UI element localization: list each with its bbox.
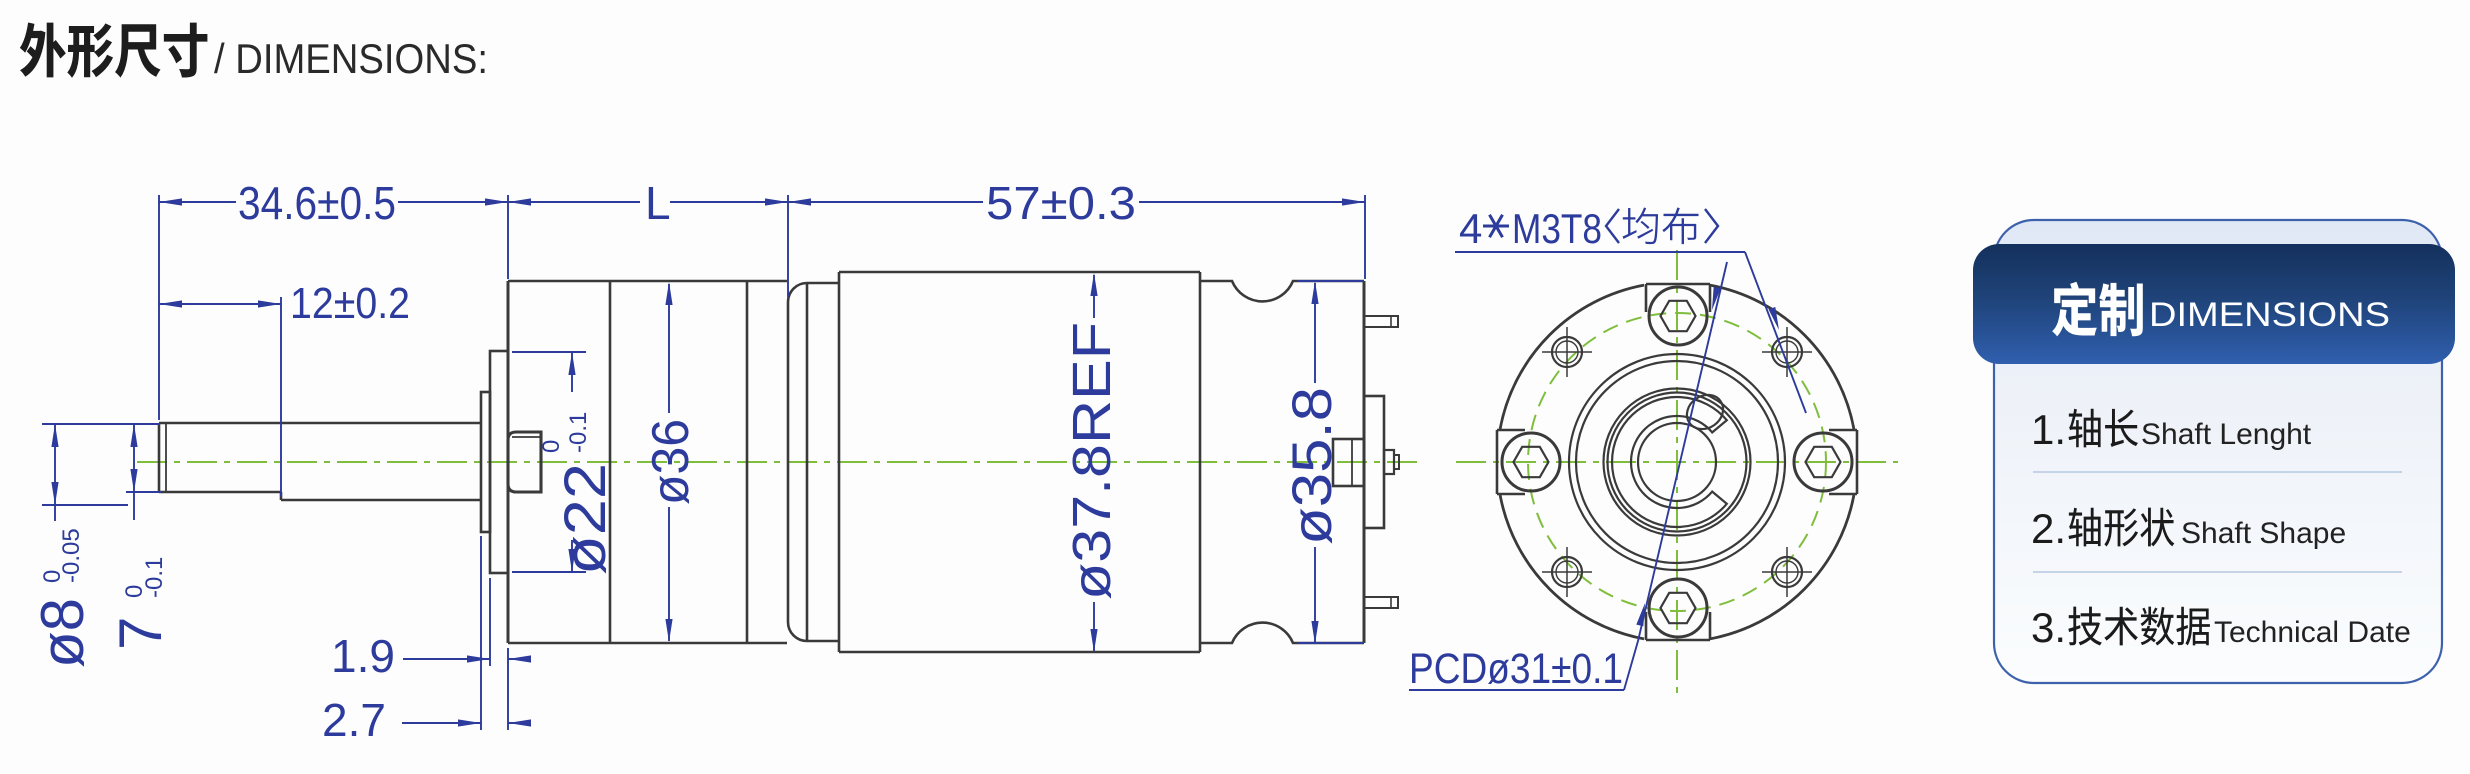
svg-text:ø8: ø8 [29,598,96,668]
svg-text:-0.1: -0.1 [141,557,168,598]
svg-text:1.: 1. [2031,406,2066,453]
svg-text:7: 7 [107,617,174,650]
svg-text:4: 4 [1459,205,1482,252]
svg-text:1.9: 1.9 [331,630,395,682]
svg-text:ø37.8REF: ø37.8REF [1062,322,1122,600]
svg-text:ø22: ø22 [553,463,618,575]
svg-text:0: 0 [538,440,565,453]
svg-text:-0.05: -0.05 [58,528,85,583]
svg-text:ø35.8: ø35.8 [1280,387,1343,545]
svg-text:L: L [645,177,671,229]
svg-text:-0.1: -0.1 [565,412,592,453]
svg-text:M3T8: M3T8 [1512,205,1602,252]
svg-text:12±0.2: 12±0.2 [290,279,410,328]
svg-text:2.: 2. [2031,505,2066,552]
svg-text:34.6±0.5: 34.6±0.5 [238,177,396,229]
svg-text:Shaft Shape: Shaft Shape [2181,517,2346,550]
svg-text:2.7: 2.7 [322,694,386,746]
svg-text:3.: 3. [2031,604,2066,651]
svg-text:DIMENSIONS: DIMENSIONS [2149,296,2390,334]
svg-text:/ DIMENSIONS:: / DIMENSIONS: [214,35,488,82]
svg-text:PCDø31±0.1: PCDø31±0.1 [1409,645,1623,693]
svg-text:Technical Date: Technical Date [2214,616,2411,649]
svg-text:Shaft Lenght: Shaft Lenght [2141,418,2312,451]
svg-text:ø36: ø36 [642,419,700,505]
svg-text:57±0.3: 57±0.3 [986,177,1136,229]
